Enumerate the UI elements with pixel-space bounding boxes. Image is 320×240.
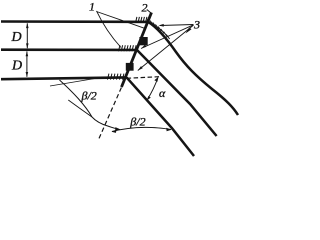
pipe wall line L3 (bottom horizontal)	[1, 77, 127, 79]
weld joint square Q2	[126, 63, 134, 71]
svg-text:1: 1	[89, 0, 95, 14]
horizontal dashed extension of L3	[127, 77, 159, 79]
seam axis dashed extension	[99, 88, 121, 139]
pipe wall line L2 (middle horizontal)	[1, 48, 137, 51]
leader from 3 to comb C2	[159, 24, 194, 27]
pipe wall diagonal DB (continuation of L2)	[137, 50, 217, 136]
dimension arrow D1 (between L1 and L2)	[26, 23, 29, 48]
leader from 3 to L2 bend	[141, 25, 194, 49]
weld comb C2 on DA	[147, 19, 169, 39]
svg-text:2: 2	[142, 1, 148, 15]
svg-text:D: D	[11, 30, 22, 45]
weld comb C5 on L3	[108, 74, 124, 80]
svg-text:α: α	[159, 86, 166, 100]
weld comb C6 on DC	[125, 77, 142, 95]
pipe wall diagonal DC (continuation of L3, bowed)	[127, 77, 194, 156]
weld joint square Q1	[139, 37, 147, 45]
dimension arrow D2 (between L2 and L3)	[26, 51, 29, 77]
angle arc alpha	[147, 77, 158, 100]
thin reference line under L3	[50, 79, 95, 87]
leader from 2 to seam top	[147, 10, 151, 14]
pipe wall diagonal DA (continuation of L1, bowed)	[148, 22, 238, 115]
svg-text:β/2: β/2	[81, 89, 97, 103]
svg-text:D: D	[11, 59, 22, 74]
weld comb C1 on L1	[136, 17, 150, 23]
leader from 1 to first seam	[97, 12, 147, 29]
svg-text:3: 3	[193, 18, 200, 32]
pipe wall line L1 (top horizontal)	[1, 20, 148, 23]
weld seam axis (thick miter line)	[122, 13, 152, 88]
angle arc beta/2 (lower)	[112, 127, 172, 132]
weld comb C4 on DB	[136, 49, 153, 66]
angle arc beta/2 (big, left)	[60, 80, 121, 131]
svg-text:β/2: β/2	[129, 114, 145, 128]
weld comb C3 on L2	[119, 45, 137, 51]
leader from 3 to third seam	[138, 25, 194, 70]
leader from 1 to second seam comb	[97, 11, 122, 48]
